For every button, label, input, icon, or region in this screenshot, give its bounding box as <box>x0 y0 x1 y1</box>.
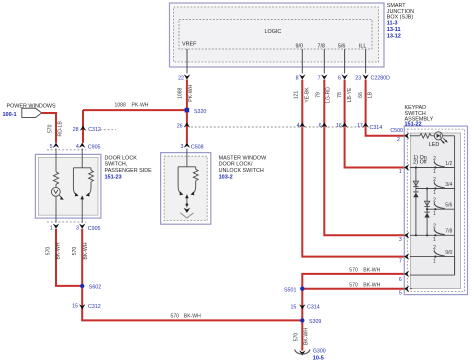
svg-text:2) Off: 2) Off <box>413 159 427 165</box>
svg-text:17: 17 <box>357 123 363 129</box>
connector C905 arrows bottom pins 1 and 3 <box>50 224 101 232</box>
SJB name and page refs <box>387 3 414 39</box>
svg-text:570: 570 <box>45 247 51 256</box>
wire: master switch resistor leg <box>193 181 196 194</box>
svg-text:16: 16 <box>336 123 342 129</box>
svg-text:7: 7 <box>318 75 321 81</box>
svg-text:C312: C312 <box>88 304 101 310</box>
keypad switch row 3/4 <box>416 181 455 188</box>
svg-text:BK-WH: BK-WH <box>56 242 62 259</box>
keypad on off note <box>413 155 427 165</box>
svg-text:S501: S501 <box>284 287 296 293</box>
wire: S309 down to G300 <box>301 320 303 350</box>
power windows feed label <box>3 103 57 118</box>
svg-text:2: 2 <box>433 177 436 183</box>
svg-text:1: 1 <box>433 211 436 217</box>
svg-text:9/0: 9/0 <box>445 250 452 256</box>
svg-text:28: 28 <box>73 127 79 133</box>
svg-text:S320: S320 <box>194 109 206 115</box>
master window door lock unlock switch box <box>161 153 268 225</box>
keypad LED row: resistor <box>410 134 435 139</box>
connector C508 arrow pin 3 <box>181 143 204 151</box>
svg-text:121: 121 <box>293 91 299 100</box>
svg-text:S309: S309 <box>309 319 321 325</box>
svg-text:15: 15 <box>290 304 296 310</box>
svg-text:7: 7 <box>399 259 402 265</box>
svg-text:BK-WH: BK-WH <box>363 282 380 288</box>
svg-text:BK-WH: BK-WH <box>83 242 89 259</box>
door lock switch passenger side box <box>35 150 152 222</box>
svg-text:1: 1 <box>433 169 436 175</box>
svg-text:LB: LB <box>367 91 373 98</box>
svg-text:6: 6 <box>399 277 402 283</box>
keypad switch row 9/0 <box>410 249 455 256</box>
connector C314 inline dashed <box>191 125 382 131</box>
keypad switch row 5/6 <box>427 202 455 209</box>
svg-text:2: 2 <box>433 224 436 230</box>
junction S501 <box>284 287 304 294</box>
keypad right bus <box>454 136 456 275</box>
wire: keypad pin 6 run <box>302 274 404 321</box>
wire: lamp to pin 1 <box>55 196 57 223</box>
svg-text:4: 4 <box>297 123 300 129</box>
svg-text:MASTER WINDOW: MASTER WINDOW <box>219 155 268 161</box>
resistor in illumination branch <box>53 172 58 184</box>
lamp arrow head <box>60 197 64 200</box>
svg-text:4: 4 <box>76 144 79 150</box>
svg-text:3: 3 <box>399 237 402 243</box>
wire label 79 LG-RD <box>316 87 332 103</box>
svg-text:7/8: 7/8 <box>318 44 326 50</box>
keypad pin arrows on left edge <box>404 133 409 292</box>
wire label 570 BK-WH left pair <box>45 242 89 259</box>
svg-text:151-22: 151-22 <box>405 121 422 127</box>
svg-text:570: 570 <box>48 124 54 133</box>
wire: resistor leg to contact <box>88 182 91 195</box>
svg-text:UNLOCK SWITCH: UNLOCK SWITCH <box>219 168 264 174</box>
svg-text:G300: G300 <box>313 348 326 354</box>
connector C314 arrow pin 15 <box>290 304 319 310</box>
svg-text:C312: C312 <box>88 127 101 133</box>
svg-text:1/2: 1/2 <box>445 161 452 167</box>
logic box inside SJB <box>179 20 372 50</box>
diode D3 <box>424 201 429 206</box>
svg-text:6: 6 <box>338 75 341 81</box>
keypad switch assembly box <box>404 105 467 295</box>
svg-text:2: 2 <box>433 156 436 162</box>
keypad pin5 stub <box>410 288 412 290</box>
master switch internal ground <box>180 203 193 218</box>
svg-text:13-12: 13-12 <box>387 33 401 39</box>
svg-text:C2280D: C2280D <box>371 75 391 81</box>
svg-text:5: 5 <box>50 144 53 150</box>
svg-text:23: 23 <box>355 75 361 81</box>
wire: switch pole to pin 3 <box>81 198 83 223</box>
lock unlock rocker switch contacts in door lock switch <box>73 148 91 195</box>
wire: keypad pin 5 run from S501 <box>302 288 404 290</box>
junction S309 <box>300 318 321 325</box>
svg-text:3: 3 <box>76 226 79 232</box>
svg-text:2: 2 <box>433 245 436 251</box>
svg-text:ILL: ILL <box>359 44 367 50</box>
wire: power windows to door lock switch pin 5 <box>42 113 56 143</box>
svg-text:1: 1 <box>433 190 436 196</box>
keypad left diode column <box>415 166 417 236</box>
svg-text:PK-WH: PK-WH <box>188 84 194 101</box>
svg-text:LED: LED <box>429 142 440 148</box>
svg-text:13-11: 13-11 <box>387 27 401 33</box>
svg-text:C508: C508 <box>191 145 204 151</box>
connector C2280D arrows and pins <box>184 74 369 79</box>
SJB internal pin stubs <box>187 49 366 73</box>
svg-text:9/0: 9/0 <box>296 44 304 50</box>
svg-text:100-1: 100-1 <box>3 112 17 118</box>
svg-text:1: 1 <box>399 169 402 175</box>
wire label 570 RD-LB <box>48 121 64 137</box>
svg-text:570: 570 <box>72 247 78 256</box>
svg-text:PASSENGER SIDE: PASSENGER SIDE <box>105 168 153 174</box>
svg-text:79: 79 <box>316 92 322 98</box>
svg-text:8: 8 <box>296 75 299 81</box>
wire: door lock pin 1 down to S602 <box>56 229 82 286</box>
svg-text:LOGIC: LOGIC <box>265 29 282 35</box>
illumination lamp <box>51 184 62 198</box>
svg-text:570: 570 <box>171 314 180 320</box>
svg-text:570: 570 <box>349 282 358 288</box>
svg-text:C314: C314 <box>307 304 320 310</box>
svg-text:6: 6 <box>319 123 322 129</box>
svg-text:2: 2 <box>397 137 400 143</box>
connector C905 arrows top pins 5 and 4 <box>50 143 101 151</box>
svg-text:151-23: 151-23 <box>105 175 122 181</box>
svg-text:15: 15 <box>72 304 78 310</box>
diode D4 <box>424 212 429 217</box>
svg-text:BK-WH: BK-WH <box>184 314 201 320</box>
diode D2 <box>413 192 418 197</box>
svg-text:78: 78 <box>337 92 343 98</box>
svg-text:C905: C905 <box>88 226 101 232</box>
ground G300 <box>295 348 326 361</box>
smart junction box SJB outline <box>170 3 385 67</box>
wire label 121 YE-BK <box>293 87 310 103</box>
svg-text:C500: C500 <box>390 128 403 134</box>
keypad switch row 1/2 <box>410 160 455 167</box>
wire: branch down to door lock switch pin 4 <box>82 110 84 143</box>
svg-text:103-2: 103-2 <box>219 175 233 181</box>
svg-text:1: 1 <box>433 237 436 243</box>
svg-text:DOOR LOCK: DOOR LOCK <box>105 155 138 161</box>
wire: pin 7 down and to keypad pin 3 <box>324 80 404 236</box>
svg-text:3: 3 <box>181 144 184 150</box>
wire label 570 BK-WH ground leg <box>294 328 310 345</box>
svg-text:66: 66 <box>358 92 364 98</box>
wire label 66 LB <box>358 91 373 98</box>
wire: master switch pole to ground <box>186 197 188 207</box>
svg-text:DOOR LOCK/: DOOR LOCK/ <box>219 162 253 168</box>
wire label 1088 PK-WH vertical <box>178 84 195 101</box>
svg-text:2: 2 <box>433 198 436 204</box>
svg-text:5: 5 <box>399 290 402 296</box>
junction S602 <box>80 284 101 291</box>
svg-text:RD-LB: RD-LB <box>58 121 64 137</box>
svg-text:S602: S602 <box>89 285 101 291</box>
master switch contact arrow heads <box>180 191 195 198</box>
resistor in master switch branch <box>193 169 198 180</box>
keypad LED <box>429 132 455 148</box>
wire label 78 LB-YE <box>337 87 353 102</box>
svg-text:5/6: 5/6 <box>445 203 452 209</box>
connector arrow pin 26 center column <box>177 122 190 129</box>
wire labels 570 BK-WH keypad runs <box>349 267 380 288</box>
wire: pin 8 down and to keypad pin 7 <box>302 80 404 257</box>
svg-text:570: 570 <box>349 267 358 273</box>
svg-text:5/6: 5/6 <box>338 44 346 50</box>
svg-text:1: 1 <box>50 226 53 232</box>
svg-text:LB-YE: LB-YE <box>347 87 353 102</box>
svg-text:BK-WH: BK-WH <box>304 328 310 345</box>
svg-text:SWITCH,: SWITCH, <box>105 162 128 168</box>
svg-text:VREF: VREF <box>182 41 197 47</box>
svg-text:C905: C905 <box>88 144 101 150</box>
svg-text:22: 22 <box>178 75 184 81</box>
resistor in lock contact branch <box>89 170 94 181</box>
connector C312 arrow pin 28 <box>73 126 116 133</box>
wire: pin 23 ILL down and to keypad pin 2 <box>366 80 405 136</box>
wire label 1088 PK-WH horizontal <box>115 102 149 108</box>
junction S320 <box>185 108 207 115</box>
master switch rocker contacts <box>178 148 196 193</box>
wire label 570 BK-WH long run <box>171 314 202 320</box>
svg-text:7/8: 7/8 <box>445 229 452 235</box>
keypad switch row 7/8 <box>410 228 455 235</box>
keypad common return row pin 6 <box>410 274 455 276</box>
wire: door lock pin 3 down through C312 to long run <box>82 229 302 321</box>
svg-text:LG-RD: LG-RD <box>326 87 332 103</box>
diode D1 <box>413 181 418 186</box>
keypad right diode column <box>426 187 428 236</box>
svg-text:10-5: 10-5 <box>313 355 324 361</box>
wire: 1088 PK-WH horizontal to S320 <box>83 109 187 111</box>
svg-text:3/4: 3/4 <box>445 182 452 188</box>
svg-text:C314: C314 <box>370 125 383 131</box>
wire: pin 5 into illumination branch <box>55 148 57 171</box>
svg-text:26: 26 <box>177 124 183 130</box>
svg-text:570: 570 <box>294 333 300 342</box>
svg-text:YE-BK: YE-BK <box>304 87 310 103</box>
svg-text:11-3: 11-3 <box>387 21 398 27</box>
svg-text:1088: 1088 <box>115 102 126 108</box>
C314 arrows pins 4 6 16 17 <box>299 122 369 127</box>
svg-text:1: 1 <box>433 258 436 264</box>
wire: VREF pin 22 down to master switch <box>186 80 188 144</box>
switch contact arrow heads <box>75 193 90 200</box>
connector C312 arrow pin 15 <box>72 304 101 310</box>
svg-text:BK-WH: BK-WH <box>363 267 380 273</box>
svg-text:PK-WH: PK-WH <box>132 102 149 108</box>
wire: pin 6 down and to keypad pin 1 <box>345 80 405 168</box>
svg-text:1088: 1088 <box>178 87 184 98</box>
